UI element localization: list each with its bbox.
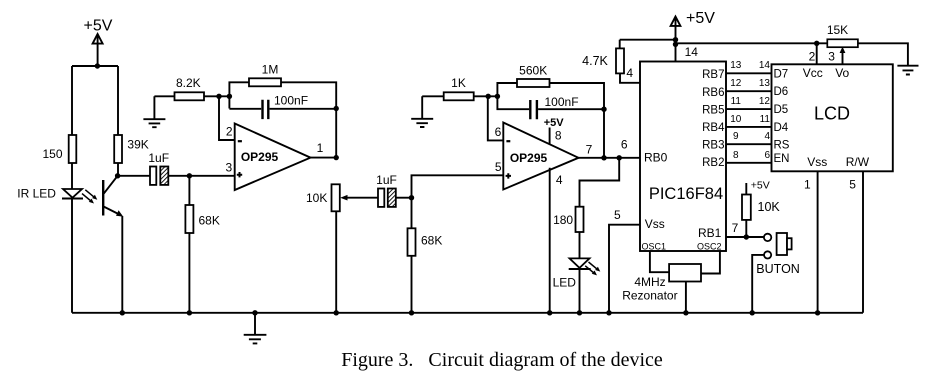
svg-text:10K: 10K: [306, 191, 327, 205]
svg-text:10K: 10K: [758, 200, 781, 214]
svg-text:560K: 560K: [519, 64, 547, 78]
svg-text:4: 4: [626, 66, 633, 80]
svg-text:180: 180: [553, 213, 573, 227]
svg-text:4.7K: 4.7K: [582, 54, 608, 68]
svg-text:6: 6: [764, 150, 770, 161]
svg-text:8: 8: [555, 129, 562, 143]
svg-text:6: 6: [495, 125, 502, 139]
svg-text:LCD: LCD: [814, 103, 850, 123]
svg-text:1: 1: [804, 177, 811, 191]
svg-text:68K: 68K: [421, 234, 442, 248]
svg-text:68K: 68K: [199, 214, 220, 228]
svg-text:3: 3: [226, 161, 233, 175]
svg-text:9: 9: [733, 131, 739, 142]
svg-text:Rezonator: Rezonator: [622, 289, 677, 303]
svg-text:RB5: RB5: [702, 104, 724, 116]
svg-text:8.2K: 8.2K: [176, 76, 201, 90]
svg-text:Vo: Vo: [835, 66, 849, 80]
svg-text:Vss: Vss: [645, 217, 665, 231]
svg-text:RB7: RB7: [702, 69, 724, 81]
svg-text:10: 10: [730, 114, 742, 125]
svg-text:39K: 39K: [127, 138, 148, 152]
svg-text:12: 12: [730, 78, 742, 89]
svg-text:1K: 1K: [451, 76, 466, 90]
svg-text:EN: EN: [774, 153, 790, 165]
svg-text:100nF: 100nF: [274, 94, 308, 108]
svg-text:100nF: 100nF: [545, 95, 579, 109]
svg-text:1M: 1M: [262, 62, 279, 76]
svg-text:Figure 3. Circuit diagram of: Figure 3. Circuit diagram of the device: [341, 349, 663, 371]
svg-text:OSC2: OSC2: [697, 241, 722, 251]
svg-text:RB2: RB2: [702, 157, 724, 169]
svg-text:11: 11: [731, 96, 742, 107]
svg-text:+5V: +5V: [686, 10, 715, 27]
svg-text:14: 14: [759, 60, 771, 71]
svg-text:1uF: 1uF: [148, 151, 169, 165]
svg-text:2: 2: [226, 125, 233, 139]
svg-text:D5: D5: [774, 104, 789, 116]
svg-text:7: 7: [586, 142, 593, 156]
svg-text:8: 8: [733, 150, 739, 161]
svg-text:RB3: RB3: [702, 139, 724, 151]
svg-text:LED: LED: [553, 276, 577, 290]
svg-text:OP295: OP295: [241, 150, 279, 164]
svg-text:RB6: RB6: [702, 87, 724, 99]
svg-text:13: 13: [730, 60, 742, 71]
svg-text:150: 150: [42, 147, 62, 161]
svg-text:D6: D6: [774, 86, 789, 98]
svg-text:PIC16F84: PIC16F84: [649, 185, 723, 203]
svg-text:13: 13: [759, 78, 771, 89]
svg-text:2: 2: [809, 50, 816, 64]
svg-text:+5V: +5V: [84, 17, 113, 34]
svg-text:4MHz: 4MHz: [634, 275, 665, 289]
svg-text:14: 14: [685, 45, 699, 59]
svg-text:R/W: R/W: [846, 155, 870, 169]
svg-text:3: 3: [828, 50, 835, 64]
svg-text:1: 1: [317, 141, 324, 155]
svg-text:4: 4: [556, 173, 563, 187]
svg-text:1uF: 1uF: [376, 173, 397, 187]
svg-text:D7: D7: [774, 68, 789, 80]
svg-text:OP295: OP295: [510, 151, 548, 165]
svg-text:IR LED: IR LED: [17, 187, 56, 201]
svg-text:RB4: RB4: [702, 122, 725, 134]
svg-text:RB0: RB0: [644, 150, 668, 164]
svg-text:5: 5: [849, 177, 856, 191]
svg-text:Vcc: Vcc: [803, 66, 823, 80]
svg-text:15K: 15K: [827, 23, 848, 37]
svg-text:BUTON: BUTON: [756, 262, 800, 276]
svg-text:7: 7: [732, 221, 739, 235]
svg-text:Vss: Vss: [807, 155, 827, 169]
svg-text:+5V: +5V: [751, 180, 770, 192]
svg-text:OSC1: OSC1: [642, 241, 667, 251]
svg-text:RS: RS: [774, 139, 790, 151]
svg-text:5: 5: [614, 208, 621, 222]
svg-text:12: 12: [759, 96, 771, 107]
svg-text:+5V: +5V: [544, 117, 565, 129]
svg-text:4: 4: [764, 131, 770, 142]
svg-text:D4: D4: [774, 122, 789, 134]
svg-text:11: 11: [760, 114, 771, 125]
svg-text:5: 5: [495, 160, 502, 174]
svg-text:6: 6: [621, 137, 628, 151]
svg-text:RB1: RB1: [698, 226, 722, 240]
